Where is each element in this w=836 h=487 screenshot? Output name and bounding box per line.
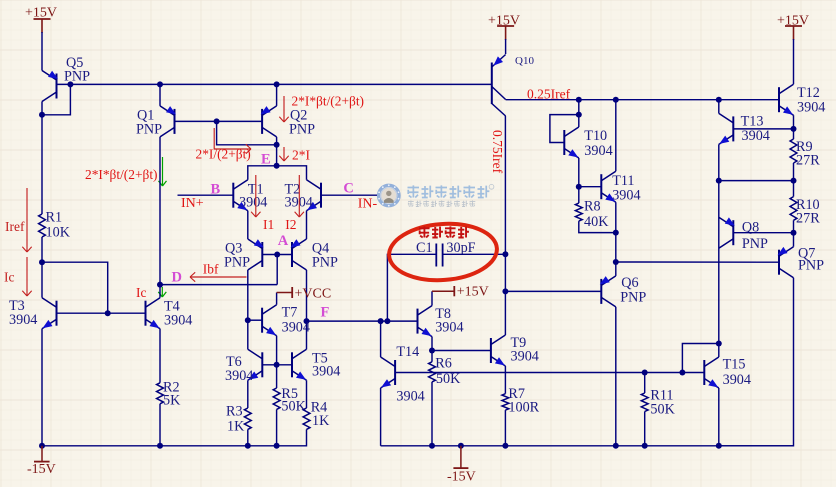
label C1 [416, 240, 433, 256]
label node E [261, 152, 271, 168]
label Q8 [742, 220, 768, 253]
node junction T3/T4 base [105, 310, 111, 316]
annotation ellipse (Miller cap) [387, 220, 499, 283]
label node D [172, 270, 182, 286]
wire top rail (Q5 base to Q10 base) [57, 83, 492, 85]
transistor T12 (NPN) [779, 84, 794, 115]
svg-text:I2: I2 [285, 217, 296, 232]
wire Q7 base [616, 261, 779, 263]
resistor R9 [790, 129, 797, 163]
label Ic at T4 [136, 285, 146, 300]
wire T12 emitter down [793, 115, 795, 129]
svg-text:50K: 50K [281, 399, 306, 415]
node rail R7 [502, 443, 508, 449]
wire T9 emitter to R7 [504, 366, 506, 394]
svg-text:A: A [278, 233, 289, 249]
node junction rail Q2 [274, 81, 280, 87]
wire T13 emitter down [718, 144, 720, 343]
svg-text:2*I*βt/(2+βt): 2*I*βt/(2+βt) [292, 94, 365, 109]
node rail left corner [39, 443, 45, 449]
svg-text:+15V: +15V [25, 6, 57, 21]
resistor R5 [273, 388, 280, 409]
transistor T7 (NPN) [262, 305, 277, 336]
label R2 5K [163, 380, 181, 409]
wire T10 base-collector loop [550, 115, 579, 143]
svg-text:2*I/(2+βt): 2*I/(2+βt) [196, 147, 251, 162]
node junction T8 emitter / T9 base / R6 [429, 348, 435, 354]
svg-text:T7: T7 [282, 305, 298, 321]
label R8 40K [584, 199, 609, 231]
resistor R2 [157, 383, 164, 404]
svg-text:-15V: -15V [27, 462, 56, 477]
node junction Q2 collector [274, 142, 280, 148]
wire T3 emitter down [41, 329, 43, 446]
svg-text:PNP: PNP [136, 122, 162, 138]
wire T14 emitter down [380, 388, 382, 446]
wire T11 emitter down [615, 202, 617, 262]
wire T3 collector-base loop [42, 262, 108, 313]
label node C [343, 180, 353, 196]
svg-text:40K: 40K [584, 214, 609, 230]
watermark logo [378, 184, 494, 206]
label Q1 [136, 108, 162, 138]
label node F [321, 305, 330, 321]
svg-text:3904: 3904 [164, 313, 192, 329]
svg-text:+15V: +15V [777, 14, 809, 29]
svg-text:3904: 3904 [723, 372, 751, 388]
wire T3 base to T4 base [57, 312, 146, 314]
node junction T10 emitter / T11 base / R8 [576, 184, 582, 190]
label 2*I*bt/(2+bt) top [292, 94, 365, 109]
wire T14 collector up to F wire [380, 321, 382, 357]
svg-text:C1: C1 [416, 240, 433, 256]
wire rail to Q2 emitter [276, 84, 278, 106]
wire Q2 collector down to node E [276, 137, 278, 166]
wire +15V to Q5 emitter [41, 32, 43, 71]
svg-text:27R: 27R [796, 211, 820, 227]
wire Q1 base to Q2 base [175, 120, 263, 122]
node junction Q3 collector / T7 base [245, 317, 251, 323]
label I2 [285, 217, 296, 232]
node junction R9 bottom [791, 178, 797, 184]
wire C1 left leg [387, 254, 436, 321]
label T9 3904 [511, 335, 539, 365]
node junction T12 emitter / T13 base / R9 [791, 126, 797, 132]
node F junction [304, 318, 310, 324]
label T6 3904 [225, 354, 253, 384]
label Ibf [203, 262, 219, 277]
green current arrow at Q1 collector [158, 157, 166, 186]
node rail R6 [429, 443, 435, 449]
svg-text:100R: 100R [508, 400, 539, 416]
svg-text:0.25Iref: 0.25Iref [527, 87, 571, 102]
resistor R8 [575, 203, 582, 221]
transistor T4 (NPN) [146, 298, 161, 329]
label T8 3904 [435, 306, 463, 336]
wire 0.25Iref (Q10 to T12 base) [506, 99, 779, 101]
wire T4 collector to node D [159, 285, 161, 298]
label Q3 [224, 241, 250, 271]
node junction T13 emitter / R9 link [716, 178, 722, 184]
svg-text:3904: 3904 [312, 364, 340, 380]
label R4 1K [311, 400, 330, 430]
transistor T3 (NPN) [42, 298, 57, 329]
node junction T15 collector loop [716, 341, 722, 347]
label 2*I [292, 148, 311, 163]
power -15V (center) [447, 446, 476, 485]
svg-text:3904: 3904 [511, 349, 539, 365]
node junction R10 bottom / Q8 base [791, 230, 797, 236]
wire bottom rail left segment [42, 429, 307, 445]
svg-text:PNP: PNP [798, 258, 824, 274]
label T1 3904 [239, 182, 267, 211]
wire T11 base [579, 186, 602, 188]
label 2*I*bt/(2+bt) left [85, 167, 158, 182]
label T10 3904 [584, 128, 612, 159]
label IN- [358, 197, 378, 212]
svg-text:Ibf: Ibf [203, 262, 219, 277]
wire T15 emitter down [718, 388, 720, 446]
wire R3 to rail [247, 429, 249, 445]
label node B [211, 182, 221, 198]
wire T4 emitter to R2 [159, 329, 161, 383]
svg-text:+15V: +15V [457, 285, 489, 300]
node junction 0.25Iref T11 [613, 97, 619, 103]
wire +15V to Q10 emitter [505, 39, 507, 54]
svg-text:B: B [211, 182, 221, 198]
transistor T11 (NPN) [601, 171, 616, 202]
wire Q3 base to Q4 base [262, 254, 292, 256]
svg-text:PNP: PNP [742, 236, 768, 252]
wire T1 emitter to Q3 emitter [247, 211, 249, 239]
label 0.25Iref [527, 87, 571, 102]
wire Q3 collector down [247, 270, 249, 320]
label 30pF [446, 240, 475, 256]
current arrow I2 [295, 175, 304, 217]
wire Q6 collector down to rail [615, 307, 617, 446]
svg-text:T10: T10 [584, 128, 607, 144]
wire T7 base [248, 319, 262, 321]
label R7 100R [508, 386, 539, 416]
svg-text:50K: 50K [436, 371, 461, 387]
svg-text:+15V: +15V [488, 14, 520, 29]
node junction C1 to 0.75Iref line [502, 251, 508, 257]
node junction rail Q1 [157, 81, 163, 87]
transistor Q5 (PNP) [42, 71, 58, 102]
wire T5 collector up to F [306, 321, 308, 349]
wire R10 bottom [793, 220, 795, 246]
wire T8 collector up [431, 291, 433, 305]
svg-text:+VCC: +VCC [295, 287, 332, 302]
node junction T7 emitter / T5 T6 bases [274, 362, 280, 368]
node junction T15 base loop [679, 370, 685, 376]
resistor R6 [429, 351, 436, 446]
svg-text:3904: 3904 [742, 128, 770, 144]
svg-text:2*I*βt/(2+βt): 2*I*βt/(2+βt) [85, 167, 158, 182]
svg-text:3904: 3904 [435, 320, 463, 336]
label T12 3904 [797, 85, 825, 116]
transistor T8 (NPN) [418, 306, 433, 337]
wire T7 collector to +VCC [277, 293, 293, 305]
wire T11 collector up [615, 100, 617, 172]
node rail T4 [157, 443, 163, 449]
current arrow 2*I*bt into Q2 [279, 96, 288, 122]
wire T13 base to R9 top [733, 128, 793, 130]
resistor R11 [641, 393, 648, 412]
label T11 3904 [612, 173, 640, 204]
label 2*I/(2+bt) [196, 147, 251, 162]
node A junction [274, 252, 280, 258]
svg-text:3904: 3904 [396, 389, 424, 405]
label T15 3904 [723, 357, 751, 389]
node rail T15 [716, 443, 722, 449]
svg-text:1K: 1K [312, 413, 330, 429]
wire node E spreader [248, 166, 307, 180]
wire Q6 base [505, 290, 601, 292]
wire T2 emitter to Q4 emitter [306, 211, 308, 239]
svg-text:PNP: PNP [289, 122, 315, 138]
transistor Q4 (PNP) [291, 239, 307, 270]
svg-text:T13: T13 [741, 114, 764, 130]
label T3 3904 [9, 298, 37, 328]
wire R9 bottom link [719, 180, 794, 182]
transistor Q3 (PNP) [248, 239, 264, 270]
wire R9 bottom [793, 163, 795, 197]
transistor T1 (NPN) [233, 180, 248, 211]
wire Q4 collector down to F [306, 270, 308, 321]
power +15V (T8) [432, 285, 489, 300]
transistor T6 (NPN) [248, 349, 262, 380]
label R3 1K [226, 404, 245, 435]
label T2 3904 [285, 182, 313, 211]
label Q4 [312, 241, 338, 271]
node junction top rail at Q5 [67, 81, 73, 87]
svg-text:3904: 3904 [282, 320, 310, 336]
current arrow 2*I into E [279, 147, 288, 161]
capacitor C1 plates [436, 244, 442, 267]
wire node A down-left to D [276, 255, 278, 285]
node junction T10 collector/base loop [576, 112, 582, 118]
svg-text:2*I: 2*I [292, 148, 311, 163]
transistor T10 (NPN) [564, 127, 579, 158]
wire T6 collector up [247, 320, 249, 349]
transistor Q2 (PNP) [261, 106, 277, 137]
node junction 0.25Iref T10 [576, 97, 582, 103]
wire R11 to rail [644, 412, 646, 446]
svg-text:Iref: Iref [5, 219, 25, 234]
wire T6 base to T5 base [262, 364, 292, 366]
wire T15 base-collector loop [682, 344, 718, 373]
power -15V (left) [27, 446, 56, 477]
svg-text:3904: 3904 [239, 195, 267, 211]
label R11 50K [650, 388, 675, 418]
current arrow 2*I/(2+bt) path [214, 128, 251, 154]
current arrow Ibf [190, 272, 247, 281]
label IN+ [181, 196, 204, 211]
transistor T9 (NPN) [491, 335, 506, 366]
svg-text:T15: T15 [723, 357, 746, 373]
label Q2 [289, 108, 315, 138]
label I1 [263, 217, 274, 232]
svg-text:T14: T14 [396, 344, 419, 360]
svg-text:PNP: PNP [312, 255, 338, 271]
svg-text:3904: 3904 [9, 312, 37, 328]
node junction T11 emitter to Q7 base wire [613, 259, 619, 265]
label T7 3904 [282, 305, 310, 336]
wire T5 emitter to R4 [306, 380, 308, 408]
svg-text:PNP: PNP [620, 290, 646, 306]
resistor R10 [790, 197, 797, 221]
svg-text:I1: I1 [263, 217, 274, 232]
wire base to Q2 collector (diode link) [217, 121, 277, 144]
wire R5 to rail [276, 409, 278, 445]
wire Q7 collector down and to rail [719, 278, 794, 446]
svg-text:10K: 10K [46, 225, 71, 241]
current arrow Iref [22, 188, 31, 252]
power +15V (top left) [25, 6, 57, 34]
svg-text:IN-: IN- [358, 197, 378, 212]
svg-text:Ic: Ic [4, 270, 15, 285]
power +15V (Q10) [488, 14, 520, 41]
node junction 0.25Iref T13 [716, 97, 722, 103]
svg-text:PNP: PNP [224, 255, 250, 271]
resistor R3 [244, 408, 251, 429]
label T14 3904 [396, 344, 424, 405]
node junction R11 top [642, 370, 648, 376]
transistor Q8 (PNP) [719, 217, 735, 248]
node junction T14 collector tap [378, 318, 384, 324]
wire Q8 base [733, 232, 793, 234]
svg-text:R3: R3 [226, 404, 243, 420]
node junction base link [214, 118, 220, 124]
wire Q5 collector to R1 [41, 115, 43, 214]
svg-text:3904: 3904 [225, 368, 253, 384]
resistor R1 [39, 214, 46, 237]
transistor T13 (NPN) [719, 113, 734, 144]
node rail R11 [642, 443, 648, 449]
wire R5 top [276, 365, 278, 388]
wire T9 collector up (0.75Iref line) [504, 116, 506, 335]
label Q5 [64, 55, 90, 85]
annotation text Miller capacitor (chinese) [419, 226, 469, 237]
transistor Q6 (PNP) [600, 276, 616, 307]
wire +15V to T12 collector [793, 39, 795, 84]
node D junction [157, 282, 163, 288]
svg-text:PNP: PNP [64, 69, 90, 85]
resistor R4 [303, 408, 310, 429]
svg-text:3904: 3904 [285, 195, 313, 211]
green current arrow Ic at T4 [158, 287, 166, 297]
node junction R8/T11 emitter [613, 230, 619, 236]
svg-text:3904: 3904 [612, 188, 640, 204]
node rail R5 [274, 443, 280, 449]
svg-text:C: C [343, 180, 353, 196]
svg-text:IN+: IN+ [181, 196, 204, 211]
current arrow Ic [22, 257, 31, 296]
wire T2 base to input C [321, 194, 377, 196]
wire T6 emitter to R3 [247, 380, 249, 408]
node E junction [274, 163, 280, 169]
wire R11 top [644, 373, 646, 394]
power +VCC bar [292, 287, 331, 302]
label Ic [4, 270, 15, 285]
svg-text:3904: 3904 [797, 100, 825, 116]
svg-text:-15V: -15V [447, 470, 476, 485]
wire R1 to T3 collector [41, 237, 43, 298]
label R9 27R [796, 139, 820, 169]
wire R7 to rail [504, 410, 506, 446]
label T13 3904 [741, 114, 770, 145]
current arrow I1 [251, 175, 260, 217]
wire Q6 emitter up [615, 262, 617, 276]
label 0.75Iref (rotated) [490, 130, 505, 174]
svg-text:Ic: Ic [136, 285, 146, 300]
label Q7 [798, 246, 824, 274]
svg-text:F: F [321, 305, 330, 321]
wire Q5 collector stub [41, 102, 43, 115]
wire T13 collector up [718, 100, 720, 114]
svg-text:Q10: Q10 [515, 55, 534, 67]
node rail -15V tap [458, 443, 464, 449]
wire R8 bottom to T11 emitter [579, 221, 616, 233]
transistor T5 (NPN) [292, 349, 307, 380]
node rail R3 [245, 443, 251, 449]
label R6 50K [435, 356, 461, 388]
power +15V (top right) [777, 14, 809, 41]
svg-text:R6: R6 [435, 356, 452, 372]
label R1 10K [46, 210, 71, 241]
transistor T15 (NPN) [704, 357, 719, 388]
svg-text:D: D [172, 270, 182, 286]
node rail Q6 [613, 443, 619, 449]
wire Q5 base-collector short [42, 84, 70, 114]
transistor Q7 (PNP) [778, 247, 794, 278]
svg-text:R1: R1 [46, 210, 63, 226]
resistor R7 [502, 394, 509, 410]
node junction C1 tap [384, 318, 390, 324]
label R10 27R [796, 197, 820, 227]
label Iref [5, 219, 25, 234]
wire input B to T1 base [178, 194, 234, 196]
wire T9 base [432, 350, 491, 352]
transistor Q10 (dual-collector PNP) [492, 55, 506, 117]
wire Q1 collector to node D [159, 137, 161, 285]
label Q10 [515, 55, 534, 67]
svg-text:50K: 50K [650, 402, 675, 418]
wire C1 right leg [443, 253, 506, 255]
wire R2 to rail [159, 404, 161, 446]
wire T10 collector up [578, 100, 580, 127]
label T4 3904 [164, 299, 192, 329]
transistor T2 (NPN) [307, 180, 322, 211]
wire T14 base long wire to T15 [395, 372, 704, 374]
svg-text:5K: 5K [163, 393, 181, 409]
wire node F to T8 base [307, 320, 418, 322]
svg-text:3904: 3904 [584, 143, 612, 159]
svg-text:R8: R8 [584, 199, 601, 215]
wire R8 top [578, 187, 580, 203]
node junction Q5 collector [39, 112, 45, 118]
wire bottom rail right segment [381, 445, 794, 447]
wire node D to A drop [160, 284, 277, 286]
svg-text:27R: 27R [796, 153, 820, 169]
wire T15 collector up [718, 344, 720, 358]
wire T8 emitter down [431, 337, 433, 351]
transistor Q1 (PNP) [160, 106, 176, 137]
node junction Q6 base tap [502, 288, 508, 294]
node junction R1/T3/diode-loop [39, 259, 45, 265]
transistor T14 (NPN) [381, 357, 396, 388]
